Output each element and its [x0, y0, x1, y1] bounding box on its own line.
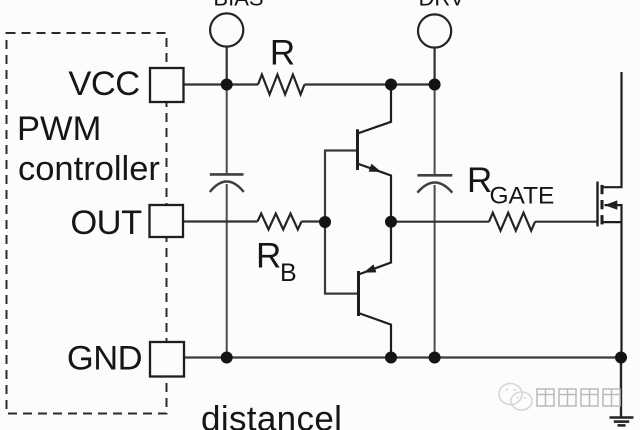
svg-text:GATE: GATE — [490, 183, 555, 210]
Q3 body arrow — [605, 200, 618, 209]
junction: GND node Q2 — [385, 352, 397, 364]
source lead — [602, 222, 622, 357]
PWM controller dashed boundary box — [7, 33, 167, 414]
junction: output node — [385, 216, 397, 228]
transistor Q1 NPN (upper) — [358, 85, 392, 222]
svg-text:controller: controller — [18, 150, 160, 188]
svg-text:GND: GND — [67, 340, 142, 378]
resistor R — [258, 75, 305, 95]
wire: output node to RGATE — [391, 221, 489, 223]
resistor RB — [258, 214, 302, 230]
svg-text:VCC: VCC — [68, 65, 139, 103]
ground symbol — [610, 418, 634, 426]
wire: ground lead below GND node — [620, 358, 622, 418]
junction: base node — [319, 216, 331, 228]
gate bar — [596, 182, 598, 227]
svg-text:PWM: PWM — [17, 110, 101, 148]
Q1 emitter arrow — [369, 164, 382, 172]
wire: BIAS rail down through C1 to GND rail — [226, 85, 228, 175]
wire: RB to base node — [302, 220, 326, 222]
svg-text:DRV: DRV — [418, 0, 464, 11]
wire: R to DRV node — [305, 83, 435, 85]
junction: DRV node — [429, 79, 441, 91]
wire: DRV rail down through C2 to GND rail — [434, 85, 436, 176]
wire: BIAS terminal stub — [226, 47, 228, 85]
MOSFET Q3 — [598, 72, 622, 358]
capacitor C1 — [210, 174, 244, 192]
svg-text:R: R — [270, 34, 295, 73]
junction: GND node MOSFET source — [615, 352, 627, 364]
svg-text:R: R — [256, 237, 281, 276]
wire: OUT pin to RB — [183, 220, 258, 222]
body lead — [605, 205, 622, 222]
transistor Q2 PNP (lower) — [359, 222, 392, 358]
watermark logo — [499, 384, 532, 411]
svg-text:B: B — [280, 259, 297, 287]
wire: top rail VCC pin to BIAS node to R — [183, 83, 258, 85]
pin VCC square — [150, 68, 184, 102]
channel segments — [601, 185, 604, 194]
resistor RGATE — [489, 213, 535, 231]
Q2 emitter arrow — [364, 264, 377, 272]
svg-text:distancel: distancel — [201, 400, 342, 430]
junction: BIAS node — [221, 79, 233, 91]
svg-text:BIAS: BIAS — [213, 0, 263, 11]
svg-text:R: R — [467, 161, 492, 200]
wire: DRV terminal stub — [434, 48, 436, 85]
junction: R/DRV rail node — [385, 79, 397, 91]
pin OUT square — [150, 205, 184, 237]
wire: GND rail — [184, 356, 622, 358]
terminal BIAS — [210, 13, 243, 46]
capacitor C2 — [417, 175, 452, 192]
wire: RGATE to MOSFET gate — [535, 221, 598, 223]
wire: base rail of Q1/Q2 — [325, 151, 358, 294]
terminal DRV — [418, 14, 451, 47]
watermark text 融创芯城 (simplified glyph strokes) — [537, 389, 620, 406]
junction: GND node C1 — [221, 352, 233, 364]
pin GND square — [150, 342, 184, 377]
drain lead — [602, 72, 622, 187]
junction: GND node C2 — [429, 352, 441, 364]
svg-text:OUT: OUT — [70, 204, 142, 242]
